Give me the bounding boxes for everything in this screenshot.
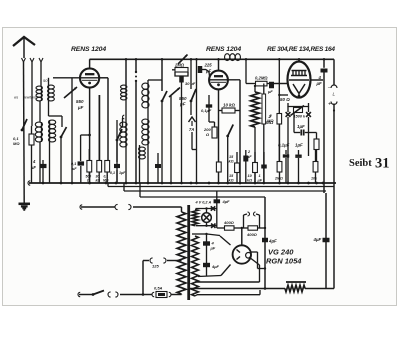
svg-text:0,1µF: 0,1µF <box>201 108 212 113</box>
svg-text:MΩ: MΩ <box>103 179 109 183</box>
svg-text:4µF: 4µF <box>313 237 322 242</box>
svg-text:400Ω: 400Ω <box>246 232 258 237</box>
svg-text:µF: µF <box>210 246 216 251</box>
svg-text:550: 550 <box>179 96 187 101</box>
svg-text:4µF: 4µF <box>268 239 277 244</box>
svg-text:RGN 1054: RGN 1054 <box>266 257 302 266</box>
svg-text:10k: 10k <box>311 177 318 181</box>
svg-text:MΩ: MΩ <box>267 118 274 123</box>
svg-text:RENS 1204: RENS 1204 <box>71 46 106 53</box>
svg-text:10 kΩ: 10 kΩ <box>223 103 236 108</box>
svg-text:µF: µF <box>77 105 84 110</box>
svg-text:4 V 0,2 A: 4 V 0,2 A <box>195 201 212 205</box>
svg-text:gewöhnl: gewöhnl <box>23 96 36 100</box>
svg-text:4µF: 4µF <box>222 199 231 204</box>
svg-text:µF: µF <box>267 89 273 94</box>
svg-text:Ω: Ω <box>86 179 90 183</box>
svg-text:VG 240: VG 240 <box>268 248 294 257</box>
svg-text:µF: µF <box>30 165 36 170</box>
svg-text:7A: 7A <box>189 127 194 132</box>
svg-text:µF: µF <box>205 69 211 74</box>
svg-text:µF: µF <box>316 81 322 86</box>
svg-text:−: − <box>328 86 331 92</box>
svg-text:kΩ: kΩ <box>96 179 101 183</box>
svg-text:1µF: 1µF <box>119 171 126 175</box>
svg-text:0,2MΩ: 0,2MΩ <box>255 76 268 81</box>
svg-text:RE 304,RE 134,RES 164: RE 304,RE 134,RES 164 <box>267 46 335 53</box>
svg-text:2MΩ: 2MΩ <box>274 177 283 181</box>
svg-text:550: 550 <box>76 99 84 104</box>
svg-text:125: 125 <box>152 264 159 269</box>
svg-text:50: 50 <box>43 78 48 83</box>
svg-text:1µF: 1µF <box>295 143 303 148</box>
svg-text:4µF: 4µF <box>211 264 220 269</box>
svg-text:µF: µF <box>257 179 263 183</box>
svg-text:50 Ω: 50 Ω <box>280 97 290 102</box>
svg-text:MΩ: MΩ <box>13 141 20 146</box>
svg-text:225: 225 <box>204 63 213 68</box>
svg-text:400Ω: 400Ω <box>223 220 235 225</box>
svg-text:kΩ: kΩ <box>229 160 234 164</box>
svg-text:pF: pF <box>179 102 186 107</box>
svg-text:31: 31 <box>375 156 390 172</box>
svg-text:1µF: 1µF <box>297 124 305 129</box>
svg-text:0,1: 0,1 <box>110 171 115 175</box>
svg-text:Seibt: Seibt <box>349 158 372 169</box>
svg-text:kΩ: kΩ <box>229 179 234 183</box>
svg-text:ws: ws <box>14 96 18 100</box>
svg-text:1: 1 <box>259 174 261 178</box>
svg-text:1500 k: 1500 k <box>294 115 307 119</box>
svg-text:kΩ: kΩ <box>247 179 252 183</box>
svg-text:0,5A: 0,5A <box>154 286 163 291</box>
svg-text:RENS 1204: RENS 1204 <box>206 46 241 53</box>
